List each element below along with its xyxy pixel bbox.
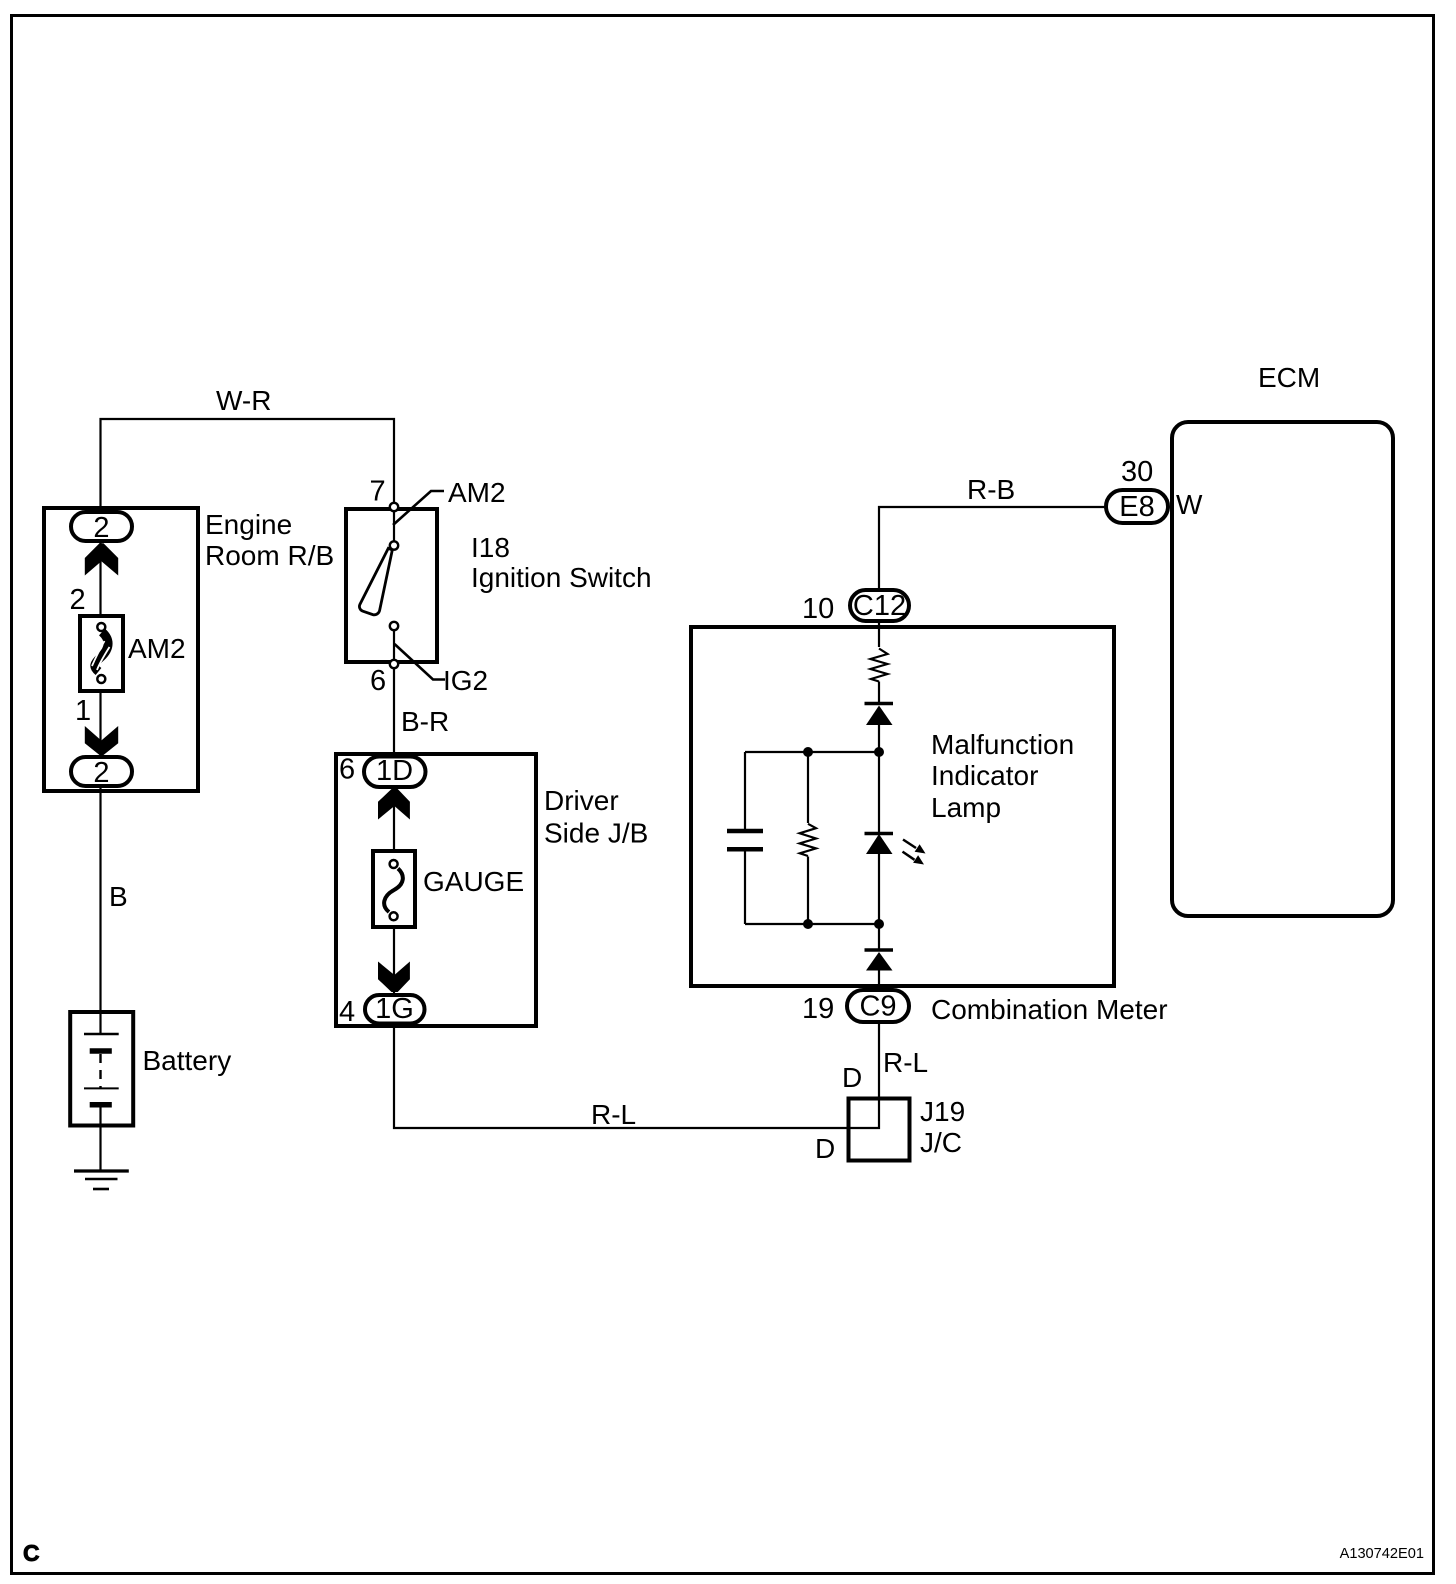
svg-text:Engine: Engine [205, 509, 292, 540]
svg-text:C9: C9 [859, 991, 896, 1023]
svg-text:2: 2 [93, 512, 109, 544]
svg-text:AM2: AM2 [128, 633, 186, 664]
svg-text:6: 6 [339, 754, 355, 786]
svg-text:Driver: Driver [544, 785, 619, 816]
svg-text:W: W [1176, 489, 1203, 520]
svg-text:Lamp: Lamp [931, 792, 1001, 823]
svg-text:Ignition Switch: Ignition Switch [471, 562, 652, 593]
svg-text:I18: I18 [471, 532, 510, 563]
svg-text:W-R: W-R [216, 385, 271, 416]
svg-text:E8: E8 [1119, 491, 1154, 523]
svg-text:1: 1 [75, 695, 91, 727]
svg-text:B: B [109, 881, 128, 912]
svg-text:4: 4 [339, 996, 355, 1028]
svg-text:ECM: ECM [1258, 362, 1320, 393]
svg-text:Room R/B: Room R/B [205, 540, 334, 571]
svg-text:Side J/B: Side J/B [544, 818, 648, 849]
svg-text:Indicator: Indicator [931, 760, 1038, 791]
svg-text:J/C: J/C [920, 1127, 962, 1158]
svg-text:7: 7 [370, 476, 386, 508]
svg-text:19: 19 [802, 993, 834, 1025]
svg-text:B-R: B-R [401, 706, 449, 737]
svg-text:10: 10 [802, 593, 834, 625]
svg-text:Malfunction: Malfunction [931, 729, 1074, 760]
svg-text:30: 30 [1121, 456, 1153, 488]
svg-text:GAUGE: GAUGE [423, 866, 524, 897]
svg-text:R-L: R-L [591, 1099, 636, 1130]
svg-text:IG2: IG2 [443, 665, 488, 696]
svg-text:J19: J19 [920, 1096, 965, 1127]
svg-text:1D: 1D [376, 755, 413, 787]
svg-text:Combination Meter: Combination Meter [931, 994, 1168, 1025]
svg-text:AM2: AM2 [448, 477, 506, 508]
svg-text:D: D [815, 1133, 835, 1164]
svg-text:R-L: R-L [883, 1047, 928, 1078]
svg-text:R-B: R-B [967, 474, 1015, 505]
svg-text:6: 6 [370, 665, 386, 697]
svg-text:C: C [23, 1540, 40, 1566]
svg-text:A130742E01: A130742E01 [1340, 1546, 1424, 1562]
svg-text:2: 2 [93, 757, 109, 789]
svg-text:2: 2 [70, 584, 86, 616]
svg-text:C12: C12 [853, 590, 906, 622]
svg-text:1G: 1G [375, 993, 414, 1025]
svg-text:Battery: Battery [143, 1045, 232, 1076]
svg-text:D: D [842, 1062, 862, 1093]
